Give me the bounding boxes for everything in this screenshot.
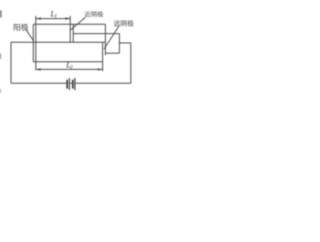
svg-text:L1: L1 [50,10,58,20]
